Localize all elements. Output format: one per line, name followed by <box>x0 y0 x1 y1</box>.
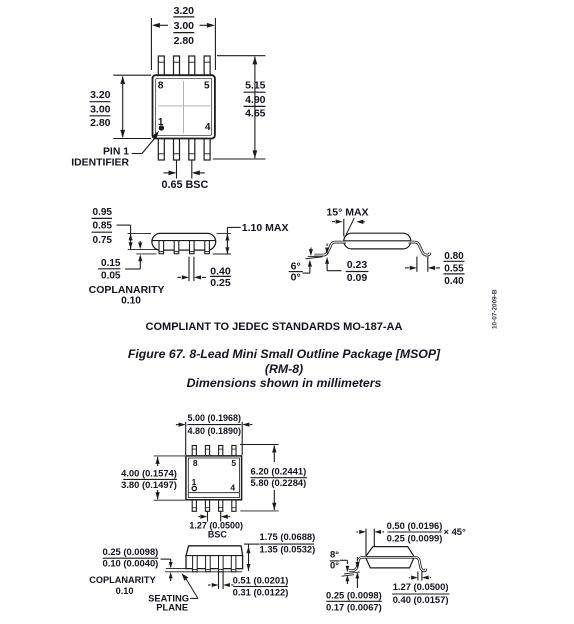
MSOP package body (top view) <box>153 75 215 138</box>
svg-text:3.00: 3.00 <box>90 104 111 116</box>
svg-text:3.20: 3.20 <box>90 89 111 101</box>
svg-text:0°: 0° <box>291 271 301 283</box>
svg-text:2.80: 2.80 <box>90 117 111 129</box>
svg-text:5.80 (0.2284): 5.80 (0.2284) <box>251 477 307 488</box>
svg-text:0.50 (0.0196): 0.50 (0.0196) <box>387 520 443 531</box>
dim: 0.15/0.05 coplanarity <box>89 241 165 307</box>
dim: 6/0 deg foot angle <box>289 248 323 284</box>
svg-text:2.80: 2.80 <box>174 35 195 47</box>
svg-text:0.55: 0.55 <box>444 264 464 275</box>
dim: 0.50/0.25 x45 chamfer <box>357 520 467 557</box>
svg-text:10-07-2009-B: 10-07-2009-B <box>492 289 499 329</box>
svg-text:0.23: 0.23 <box>347 259 368 271</box>
dim: 1.27/0.40 foot length SOIC <box>392 572 450 606</box>
right gull-wing lead <box>409 242 430 255</box>
MSOP top view group <box>153 56 215 160</box>
svg-text:0.25 (0.0098): 0.25 (0.0098) <box>326 590 382 601</box>
dim: 0.80/0.55/0.40 foot length <box>405 251 465 287</box>
svg-text:(RM-8): (RM-8) <box>265 362 303 376</box>
MSOP side view body <box>314 233 430 255</box>
dim: 1.75/1.35 height <box>244 531 315 571</box>
svg-text:0.17 (0.0067): 0.17 (0.0067) <box>326 602 382 613</box>
svg-text:4.65: 4.65 <box>245 108 266 120</box>
svg-text:Figure 67. 8-Lead Mini Small O: Figure 67. 8-Lead Mini Small Outline Pac… <box>128 347 441 361</box>
svg-text:15° MAX: 15° MAX <box>326 207 368 219</box>
dim: SOIC body 4.00/3.80 <box>121 456 185 500</box>
svg-text:0.40: 0.40 <box>444 276 464 287</box>
SOIC package body (top view) <box>186 456 242 500</box>
svg-text:PIN 1: PIN 1 <box>103 147 129 158</box>
svg-text:5.15: 5.15 <box>245 80 266 92</box>
pin 1 identifier dot <box>159 125 164 130</box>
dim: 1.10 MAX height <box>225 222 288 254</box>
svg-text:5: 5 <box>204 80 210 91</box>
svg-text:1.35 (0.0532): 1.35 (0.0532) <box>260 544 316 555</box>
SOIC right lead <box>413 557 426 571</box>
svg-text:1: 1 <box>192 477 197 487</box>
svg-text:4: 4 <box>205 122 211 133</box>
svg-text:COMPLIANT TO JEDEC STANDARDS M: COMPLIANT TO JEDEC STANDARDS MO-187-AA <box>146 321 403 333</box>
svg-text:COPLANARITY: COPLANARITY <box>89 575 155 585</box>
svg-text:BSC: BSC <box>208 529 228 539</box>
svg-text:5.00 (0.1968): 5.00 (0.1968) <box>188 413 242 423</box>
SOIC side view body <box>349 547 426 571</box>
svg-text:PLANE: PLANE <box>156 601 188 612</box>
svg-text:8: 8 <box>158 80 164 91</box>
svg-text:0.65 BSC: 0.65 BSC <box>161 179 208 191</box>
seating plane line <box>165 571 242 573</box>
dim: top width 3.20/3.00/2.80 <box>151 5 215 70</box>
svg-text:1.27 (0.0500): 1.27 (0.0500) <box>393 581 449 592</box>
dim: SOIC pitch 1.27 BSC <box>189 511 243 539</box>
dim: 8/0 deg foot angle SOIC <box>330 549 360 584</box>
ext lines front view <box>128 232 152 234</box>
dim: 0.95/0.85/0.75 standoff height <box>92 207 133 249</box>
svg-text:1.75 (0.0688): 1.75 (0.0688) <box>260 531 316 542</box>
svg-text:8°: 8° <box>330 549 339 560</box>
dim: 0.25/0.17 lead thickness SOIC <box>326 557 382 613</box>
svg-text:3.80 (0.1497): 3.80 (0.1497) <box>121 479 177 490</box>
svg-text:0.95: 0.95 <box>93 207 113 218</box>
dim: 0.23/0.09 lead thickness <box>325 244 368 285</box>
left gull-wing lead <box>314 242 346 255</box>
dim: 0.40/0.25 lead width <box>177 257 231 289</box>
SOIC front leads <box>193 556 198 572</box>
svg-text:0.05: 0.05 <box>101 271 121 282</box>
svg-text:0.10: 0.10 <box>121 296 141 307</box>
svg-text:1.10 MAX: 1.10 MAX <box>242 222 289 234</box>
dim: right 5.15/4.90/4.65 <box>213 56 266 159</box>
svg-text:0°: 0° <box>330 559 339 570</box>
svg-text:4: 4 <box>230 482 235 492</box>
MSOP front view body <box>152 233 216 253</box>
label: SEATING PLANE <box>148 573 198 612</box>
svg-text:0.85: 0.85 <box>93 221 113 232</box>
svg-text:COPLANARITY: COPLANARITY <box>89 284 165 296</box>
svg-text:6.20 (0.2441): 6.20 (0.2441) <box>251 466 307 477</box>
svg-text:0.25 (0.0099): 0.25 (0.0099) <box>387 533 443 544</box>
SOIC top view group <box>186 446 242 512</box>
svg-text:3.20: 3.20 <box>174 5 195 17</box>
MSOP front view leads <box>159 241 164 254</box>
dim: 0.51/0.31 lead width <box>208 572 288 597</box>
svg-text:4.90: 4.90 <box>245 94 266 106</box>
dim: 15 deg MAX lead angle <box>326 207 368 238</box>
SOIC front view body <box>165 546 243 572</box>
svg-text:0.40 (0.0157): 0.40 (0.0157) <box>393 594 449 605</box>
dim: left body height 3.20/3.00/2.80 <box>90 75 152 138</box>
svg-text:0.25 (0.0098): 0.25 (0.0098) <box>103 546 159 557</box>
svg-text:× 45°: × 45° <box>444 526 467 537</box>
svg-text:0.31 (0.0122): 0.31 (0.0122) <box>233 586 289 597</box>
svg-text:0.15: 0.15 <box>101 258 121 269</box>
SOIC top-view pins <box>192 446 196 456</box>
svg-text:IDENTIFIER: IDENTIFIER <box>71 157 129 168</box>
svg-text:0.10 (0.0040): 0.10 (0.0040) <box>103 558 159 569</box>
svg-text:0.09: 0.09 <box>347 272 368 284</box>
center crosshair <box>183 81 185 133</box>
dim: SOIC width 5.00/4.80 <box>176 413 253 455</box>
label: PIN 1 IDENTIFIER with leader <box>71 131 159 169</box>
svg-text:Dimensions shown in millimeter: Dimensions shown in millimeters <box>187 376 382 390</box>
svg-text:4.80 (0.1890): 4.80 (0.1890) <box>188 426 242 436</box>
SOIC left lead <box>349 557 367 570</box>
svg-text:0.10: 0.10 <box>116 586 134 596</box>
svg-text:0.51 (0.0201): 0.51 (0.0201) <box>233 574 289 585</box>
svg-text:0.75: 0.75 <box>93 235 113 246</box>
pin 1 circle <box>192 486 196 490</box>
svg-text:3.00: 3.00 <box>174 20 195 32</box>
svg-text:0.25: 0.25 <box>210 277 231 289</box>
dim: 0.25/0.10 coplanarity SOIC <box>89 546 172 596</box>
svg-text:5: 5 <box>231 458 236 468</box>
MSOP top-view pins (8 leads) <box>158 56 164 76</box>
svg-text:0.80: 0.80 <box>444 251 464 262</box>
svg-text:8: 8 <box>193 458 198 468</box>
dim: SOIC span 6.20/5.80 <box>240 445 307 511</box>
dim: 0.65 BSC lead pitch <box>161 161 208 192</box>
svg-text:4.00 (0.1574): 4.00 (0.1574) <box>121 468 177 479</box>
